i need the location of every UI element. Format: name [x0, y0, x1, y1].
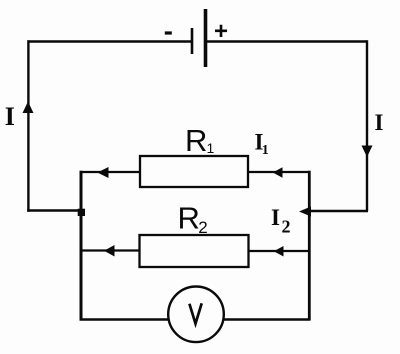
svg-text:R: R	[178, 201, 200, 236]
svg-text:I: I	[375, 110, 384, 135]
voltmeter V1 body	[168, 287, 224, 343]
wire bottom right	[224, 318, 311, 321]
wire right vertical	[366, 40, 368, 211]
arrow current I down (right branch)	[362, 146, 373, 158]
wire R2 left	[80, 249, 141, 251]
svg-text:+: +	[214, 18, 228, 45]
voltmeter V label	[190, 305, 202, 324]
svg-text:2: 2	[198, 218, 207, 237]
wire R2 right	[248, 250, 311, 252]
svg-text:1: 1	[207, 140, 215, 156]
arrow I2 left of R2	[104, 245, 115, 257]
arrow I1 right of R1	[273, 167, 283, 178]
arrow I2 right of R2	[274, 246, 284, 257]
svg-text:2: 2	[282, 217, 291, 237]
node A junction dot	[78, 209, 85, 216]
wire right horizontal to node B	[309, 210, 368, 212]
svg-text:1: 1	[262, 143, 269, 158]
svg-text:R: R	[185, 123, 207, 158]
svg-text:I: I	[5, 102, 15, 131]
battery B1 negative plate	[191, 28, 194, 54]
wire left vertical	[27, 40, 29, 211]
wire left horizontal to node A	[27, 209, 81, 211]
svg-text:I: I	[271, 205, 280, 230]
wire top-left (battery negative to left corner)	[28, 40, 192, 42]
node B right rail	[308, 171, 311, 320]
wire bottom left	[80, 318, 169, 321]
wire R1 right	[248, 171, 311, 173]
resistor R1	[140, 156, 248, 187]
arrow I1 left of R1	[97, 167, 108, 178]
arrow current I up (left branch)	[23, 102, 34, 114]
arrow into node B (junction arrow)	[299, 207, 311, 217]
resistor R2	[140, 235, 249, 267]
wire top-right (battery positive to right corner)	[206, 40, 367, 42]
label minus	[165, 31, 172, 34]
battery B1 positive plate	[204, 9, 208, 67]
wire R1 left	[80, 171, 141, 173]
node A left rail	[80, 171, 83, 320]
